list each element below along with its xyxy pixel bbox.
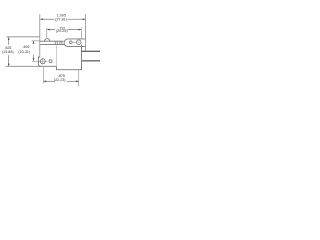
left hole vertical centerline xyxy=(42,58,44,65)
small hole near left xyxy=(49,60,52,63)
arrowhead .625 top xyxy=(8,37,10,40)
bracket small hole xyxy=(69,41,72,44)
bottom terminal block xyxy=(56,66,81,69)
switch body top edge xyxy=(40,44,64,46)
arrowhead .406 top xyxy=(33,41,35,44)
extension line left edge / body left edge xyxy=(39,14,41,57)
terminal lower xyxy=(82,60,101,62)
bottom reference line xyxy=(6,65,41,67)
dimension line .875 (22.23) xyxy=(44,80,79,82)
svg-text:(27.81): (27.81) xyxy=(55,17,67,21)
body bottom edge xyxy=(40,65,56,67)
case parting line xyxy=(55,45,57,67)
body right edge xyxy=(81,45,83,70)
svg-text:(10.31): (10.31) xyxy=(18,50,30,54)
arrowhead .797 right xyxy=(78,29,81,31)
bracket mounting hole xyxy=(77,40,82,45)
svg-text:(22.23): (22.23) xyxy=(54,78,66,82)
extension line hole right vertical xyxy=(78,70,80,87)
cap slot ticks xyxy=(55,41,62,44)
svg-text:(20.25): (20.25) xyxy=(56,29,68,33)
dimension label 1.095 xyxy=(55,13,67,21)
arrowhead .875 left xyxy=(44,80,47,82)
dimension label .625 xyxy=(2,46,14,54)
free position reference line xyxy=(7,36,40,38)
switch body cap top xyxy=(40,40,64,42)
arrowhead .875 right xyxy=(76,80,79,82)
dimension line .625 (15.88) vertical xyxy=(8,37,10,66)
hole centerline left xyxy=(32,60,48,62)
mounting bracket xyxy=(64,39,85,47)
body bottom-left foot xyxy=(38,57,41,66)
dimension label .797 xyxy=(56,26,68,33)
arrowhead .625 bottom xyxy=(8,64,10,67)
extension line right end xyxy=(84,14,86,51)
dimension line 1.095 (27.81) xyxy=(40,18,85,20)
extension line hole left vertical xyxy=(43,67,45,83)
bracket holes centerline xyxy=(72,41,76,43)
dimension line .797 (20.25) xyxy=(47,29,81,31)
arrowhead 1.095 right xyxy=(83,18,86,20)
svg-text:(15.88): (15.88) xyxy=(2,50,14,54)
bracket hole center dot xyxy=(78,42,79,43)
svg-text:.406: .406 xyxy=(22,45,29,49)
arrowhead 1.095 left xyxy=(40,18,43,20)
dimension label .406 xyxy=(18,45,30,54)
extension line cap top xyxy=(32,40,40,42)
terminal upper xyxy=(82,50,101,52)
plunger dome xyxy=(45,39,50,42)
arrowhead .406 bottom xyxy=(33,58,35,61)
extension line body right edge xyxy=(80,28,82,39)
left mounting hole xyxy=(40,59,45,64)
dimension label .875 xyxy=(54,74,66,82)
arrowhead .797 left xyxy=(47,29,50,31)
extension line plunger center xyxy=(46,28,48,38)
dimension line .406 (10.31) vertical xyxy=(33,41,35,61)
